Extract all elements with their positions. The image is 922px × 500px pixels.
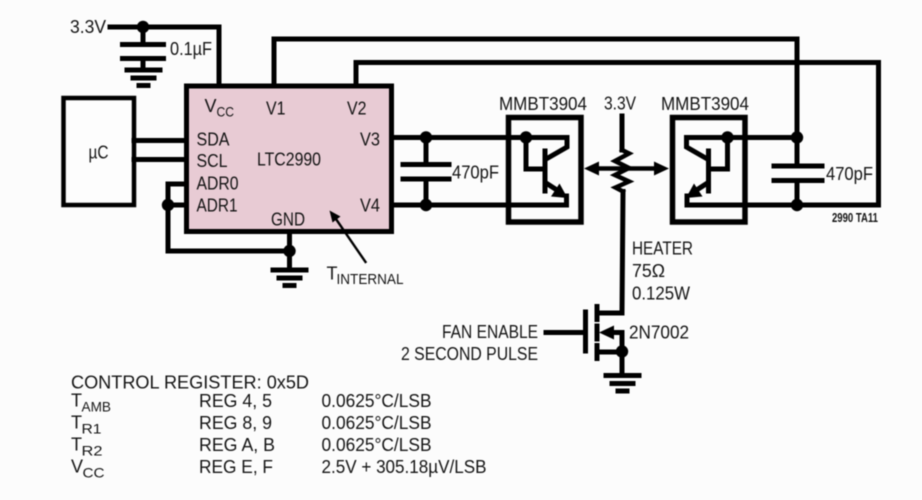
svg-text:ADR0: ADR0 [197,174,239,194]
junction GND [283,245,295,257]
svg-text:SDA: SDA [197,130,230,150]
pin label VCC [205,96,235,120]
wire V2 top run [356,63,879,206]
transistor Q3 2N7002 [586,307,623,359]
wire 3.3V to VCC pin [110,27,219,88]
wire ADR tie to GND [168,205,290,251]
wire V4 to Q1 emitter [392,203,567,208]
wire ADR0 [168,184,186,205]
svg-text:75Ω: 75Ω [632,261,665,281]
svg-text:REG 4, 5: REG 4, 5 [199,391,272,411]
svg-text:HEATER: HEATER [632,239,693,259]
annotation arrow T INTERNAL [330,211,366,263]
label T INTERNAL [327,264,404,289]
wire GND pin [287,232,292,269]
ground (Q3) [606,376,639,392]
ground (C1) [127,70,160,86]
svg-text:2990 TA11: 2990 TA11 [832,211,878,225]
capacitor C1 0.1uF [123,27,164,68]
wire V3 to Q1 [392,135,568,140]
svg-text:T: T [71,391,82,411]
transistor Q2 MMBT3904 [673,118,746,223]
capacitor C3 470pF [774,138,822,206]
junction Q3 source [616,345,628,357]
wire gate [546,330,583,335]
svg-text:2 SECOND PULSE: 2 SECOND PULSE [401,344,538,364]
svg-text:3.3V: 3.3V [70,17,106,37]
svg-text:V2: V2 [347,99,367,119]
junction V2 / C3 [791,199,803,211]
transistor Q1 MMBT3904 [509,118,582,223]
svg-text:0.0625°C/LSB: 0.0625°C/LSB [322,391,432,411]
svg-text:INTERNAL: INTERNAL [337,271,404,288]
svg-text:V4: V4 [360,196,380,216]
resistor R1 75 ohm heater [615,150,629,192]
svg-text:CC: CC [83,465,105,481]
svg-text:GND: GND [271,210,305,230]
wire Q2 collector to C3 [687,135,798,140]
svg-text:MMBT3904: MMBT3904 [499,94,587,114]
wire SCL [134,157,186,162]
junction 3.3V / C1 [137,21,149,33]
svg-text:REG 8, 9: REG 8, 9 [199,413,272,433]
svg-text:V1: V1 [266,99,286,119]
svg-text:R1: R1 [82,421,102,437]
svg-text:0.0625°C/LSB: 0.0625°C/LSB [322,413,432,433]
svg-text:ADR1: ADR1 [197,196,238,216]
svg-text:MMBT3904: MMBT3904 [661,94,749,114]
svg-text:0.125W: 0.125W [632,284,690,304]
wire Q2 emitter to C3 [687,203,797,208]
microcontroller uC [64,98,135,205]
wire R1 to Q3 drain [598,192,623,314]
IC U1 LTC2990 [187,86,392,232]
svg-text:V3: V3 [360,130,380,150]
capacitor C2 470pF [403,138,449,206]
svg-text:470pF: 470pF [452,163,499,183]
junction V1 / C3 [791,131,803,143]
svg-text:0.1µF: 0.1µF [170,39,212,59]
junction V4 / C2 [420,199,432,211]
svg-text:2N7002: 2N7002 [629,323,689,343]
junction ADR0/ADR1 [162,199,174,211]
wire V1 top run [274,39,797,138]
svg-text:T: T [71,435,82,455]
svg-text:T: T [71,413,82,433]
thermal coupling arrows [584,162,669,176]
svg-text:V: V [205,96,217,116]
svg-text:AMB: AMB [82,399,112,415]
svg-text:3.3V: 3.3V [604,94,636,114]
svg-text:µC: µC [89,143,109,163]
wire 3.3V to R1 [620,116,625,150]
svg-text:SCL: SCL [197,151,228,171]
svg-text:2.5V + 305.18µV/LSB: 2.5V + 305.18µV/LSB [322,457,487,477]
svg-text:470pF: 470pF [826,164,873,184]
svg-text:CC: CC [217,104,235,120]
svg-text:FAN ENABLE: FAN ENABLE [442,322,538,342]
ground (U1 GND) [273,270,306,286]
svg-text:REG E, F: REG E, F [199,457,273,477]
svg-text:V: V [71,457,83,477]
svg-text:LTC2990: LTC2990 [257,150,321,170]
svg-text:R2: R2 [82,443,103,459]
svg-text:CONTROL REGISTER: 0x5D: CONTROL REGISTER: 0x5D [71,373,309,393]
wire source to ground [620,352,625,374]
table CONTROL REGISTER [71,373,487,481]
svg-text:REG A, B: REG A, B [199,435,275,455]
junction V3 / C2 [420,131,432,143]
wire SDA [134,138,186,143]
svg-text:0.0625°C/LSB: 0.0625°C/LSB [322,435,432,455]
wire ADR1 [168,203,186,208]
